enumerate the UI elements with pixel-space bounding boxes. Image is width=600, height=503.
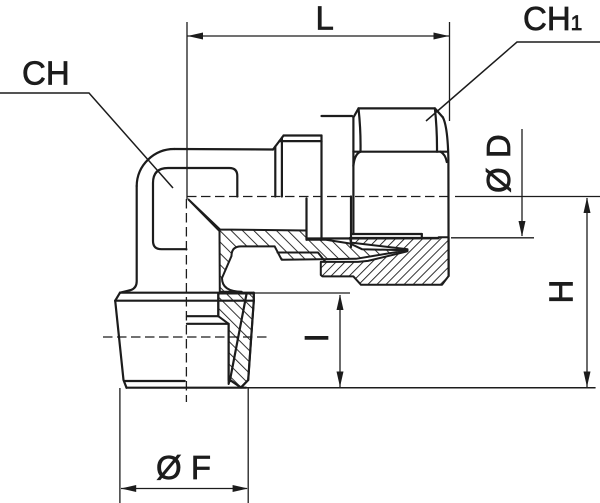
male right root line [230,294,247,388]
body top-left outer corner arc [137,149,175,186]
collar right edge [320,136,322,240]
arrow L right [434,33,450,40]
collar chamfer [273,136,284,150]
svg-text:CH: CH [22,55,70,92]
male left taper edge [115,301,126,388]
nut hex bottom edge [351,233,422,235]
L extension line left [186,22,188,199]
centerline cross tick [103,336,269,338]
L extension line right [449,22,451,121]
male left corner chamfer [115,293,120,301]
ground line [127,387,247,389]
body arm lower wall section (hatched) [189,200,408,292]
nut section band, block and thread tail (hatched) [321,237,449,284]
arrow I down [337,372,344,388]
arrow I up [337,295,344,311]
OD dimension line [521,129,523,236]
H top extension line [455,196,600,198]
male right crest edge [241,293,254,388]
body outer left edge [120,186,137,293]
base line [246,387,595,389]
nut left edge [352,117,354,234]
leg bore step lower [187,323,229,325]
OF extension line right [247,388,249,503]
male bottom chamfer edge line [125,380,185,382]
body vertical leg wall section (hatched) [218,294,254,388]
male thread start line [115,300,254,302]
nut lower face arc right [441,152,447,162]
leg bore wall upper [217,294,219,317]
nut face line left [359,108,361,151]
centerline horizontal arm [187,196,451,198]
arrow OD down [519,221,526,237]
CH1 leader [426,42,600,121]
collar second edge [279,140,321,142]
nut lower face arc left [353,152,360,166]
boss contour on elbow body [153,168,237,249]
leg bore wall lower [228,324,230,380]
L dimension line [187,35,450,37]
OF dimension line [121,488,247,490]
hex nut outline [353,108,443,117]
nut left edge below centerline [350,197,352,248]
svg-text:H: H [543,280,580,304]
arrow H down [584,372,591,388]
male stud shoulder line [120,292,254,294]
body thread root lines [278,253,326,262]
svg-text:L: L [316,0,334,37]
I extension line [254,292,350,294]
svg-text:I: I [298,333,335,342]
centerline vertical leg [185,199,187,402]
collar front edge 1 [274,147,276,197]
arrow OF right [233,485,249,492]
svg-text:CH1: CH1 [523,0,582,37]
stub end face edge [305,198,307,240]
H dimension line [586,198,588,387]
OD extension line [451,237,534,239]
body arm top edge [175,148,274,151]
arrow H up [584,198,591,214]
CH leader [0,93,173,188]
arrow L left [188,33,204,40]
OF extension line left [119,388,121,503]
nut face line right [435,108,437,151]
nut middle line [353,151,446,153]
svg-text:Ø F: Ø F [156,449,211,486]
section top edge line [307,237,439,239]
arrow OF left [121,485,137,492]
collar front edge 2 [281,138,283,197]
leg bore step upper [187,315,218,317]
nut inner vertical [421,234,423,238]
collar top edge [284,134,322,136]
I dimension line [339,295,341,387]
nut right edge curve [443,117,449,276]
svg-text:Ø D: Ø D [480,134,517,193]
nut back ring top edge [322,115,353,117]
